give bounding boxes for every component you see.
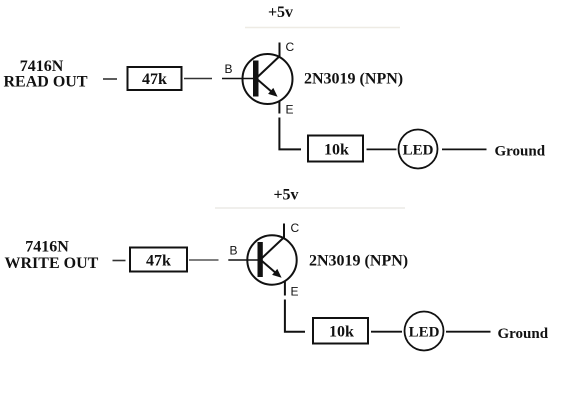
svg-text:+5v: +5v [268, 4, 293, 21]
wire: R2 to LED D1 [367, 148, 397, 150]
resistor R4 box [313, 318, 368, 344]
wire: 47k R3 to base of Q2 (segment 2) [228, 259, 258, 261]
LED D1 circle [399, 130, 438, 169]
wire: LED D2 to ground [446, 331, 491, 333]
transistor Q1 collector stroke [257, 56, 280, 78]
svg-text:2N3019 (NPN): 2N3019 (NPN) [304, 71, 403, 88]
transistor Q2 2N3019 circle [247, 235, 296, 284]
svg-text:E: E [286, 103, 294, 117]
wire: LED D1 to ground [442, 148, 487, 150]
transistor Q1 emitter arrowhead [268, 88, 278, 97]
svg-text:10k: 10k [324, 142, 349, 159]
wire: 47k R3 to base of Q2 (segment 1) [189, 259, 219, 261]
svg-text:47k: 47k [146, 253, 171, 270]
wire: emitter of Q1 down and right to R2 [279, 118, 301, 150]
wire stub: WRITE OUT to R3 [113, 260, 126, 262]
resistor R3 box [130, 248, 187, 272]
svg-text:2N3019 (NPN): 2N3019 (NPN) [309, 253, 408, 270]
wire: +5v to collector of Q1 [279, 43, 281, 58]
LED D2 circle [405, 312, 444, 351]
wire: 47k R1 to base of Q1 (segment 1) [184, 78, 212, 80]
transistor Q1 2N3019 circle [243, 54, 293, 104]
svg-text:LED: LED [403, 143, 434, 159]
svg-text:E: E [291, 285, 299, 299]
scan artifact line (middle) [215, 207, 405, 209]
svg-text:B: B [230, 244, 238, 258]
transistor Q2 emitter stroke [262, 261, 277, 274]
transistor Q2 base bar [258, 242, 263, 277]
wire stub: READ OUT to R1 [103, 78, 117, 80]
svg-text:READ OUT: READ OUT [4, 74, 88, 91]
resistor R1 box [128, 67, 182, 90]
svg-text:7416N: 7416N [20, 58, 64, 75]
transistor Q1 emitter stroke [258, 80, 273, 93]
wire: emitter of Q2 down and right to R4 [285, 300, 305, 332]
wire: emitter lead of Q2 (upper segment) [284, 282, 286, 296]
wire: +5v to collector of Q2 [283, 224, 285, 239]
wire: R4 to LED D2 [371, 331, 402, 333]
svg-text:LED: LED [409, 325, 440, 341]
scan artifact line (top) [245, 27, 400, 29]
svg-text:Ground: Ground [498, 326, 549, 342]
wire: 47k R1 to base of Q1 (segment 2) [222, 78, 254, 80]
svg-text:+5v: +5v [273, 187, 298, 204]
transistor Q1 base bar [253, 61, 259, 97]
svg-text:C: C [291, 221, 300, 235]
svg-text:WRITE OUT: WRITE OUT [5, 255, 99, 272]
transistor Q2 emitter arrowhead [272, 269, 282, 278]
resistor R2 box [308, 136, 363, 162]
svg-text:C: C [286, 40, 295, 54]
transistor Q2 collector stroke [262, 237, 285, 259]
svg-text:10k: 10k [329, 324, 354, 341]
svg-text:7416N: 7416N [25, 239, 69, 256]
svg-text:47k: 47k [142, 71, 167, 88]
svg-text:B: B [225, 62, 233, 76]
svg-text:Ground: Ground [495, 144, 546, 160]
wire: emitter lead of Q1 (upper segment) [278, 101, 280, 114]
